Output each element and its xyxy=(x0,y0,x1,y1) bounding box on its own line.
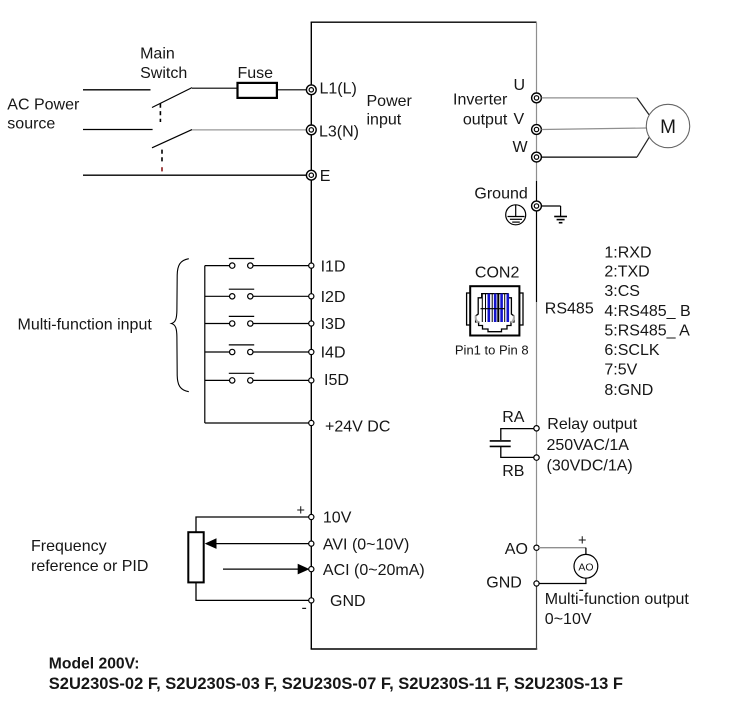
svg-text:Pin1 to Pin 8: Pin1 to Pin 8 xyxy=(455,343,529,358)
svg-text:-: - xyxy=(302,600,307,617)
motor M xyxy=(646,104,689,147)
connector CON2 pins xyxy=(481,294,508,322)
label Model 200V xyxy=(49,656,623,694)
svg-text:ACI (0~20mA): ACI (0~20mA) xyxy=(323,562,425,579)
switch I2D contact xyxy=(205,289,309,299)
wire switch 2 to L3 xyxy=(192,129,307,131)
terminal +24V DC xyxy=(309,418,391,435)
wire W to motor xyxy=(542,137,650,157)
relay contact wiring xyxy=(490,429,534,458)
wire AC earth to E xyxy=(83,174,307,176)
protective earth symbol (circle) xyxy=(506,205,526,225)
svg-text:0~10V: 0~10V xyxy=(545,611,592,628)
svg-text:L3(N): L3(N) xyxy=(319,124,359,141)
svg-text:+24V DC: +24V DC xyxy=(325,418,390,435)
svg-text:source: source xyxy=(7,116,55,133)
wire meter to GND xyxy=(539,578,586,583)
terminal Ground xyxy=(532,201,542,211)
wire AC line 1 left segment xyxy=(83,89,151,91)
svg-text:8:GND: 8:GND xyxy=(604,382,653,399)
multi-function input bus wire xyxy=(204,266,206,423)
terminal AVI xyxy=(309,536,410,553)
svg-text:I1D: I1D xyxy=(321,258,346,275)
inverter main box xyxy=(311,22,538,649)
svg-text:output: output xyxy=(463,111,508,128)
label Main Switch xyxy=(140,46,187,82)
svg-text:2:TXD: 2:TXD xyxy=(604,264,649,281)
svg-text:Relay output: Relay output xyxy=(547,416,637,433)
brace for multi-function input xyxy=(171,259,188,392)
label Relay output ratings xyxy=(547,416,638,475)
svg-text:Fuse: Fuse xyxy=(238,65,274,82)
wire potentiometer bottom to GND xyxy=(196,582,309,600)
label Power input xyxy=(367,93,413,128)
terminal RB xyxy=(534,455,539,460)
svg-text:W: W xyxy=(513,139,529,156)
label Frequency reference or PID xyxy=(31,538,148,575)
ground symbol at chassis xyxy=(542,206,568,223)
terminal U xyxy=(514,77,542,103)
svg-text:Ground: Ground xyxy=(474,186,527,203)
switch I4D contact xyxy=(205,345,309,355)
svg-text:AO: AO xyxy=(505,541,528,558)
svg-text:250VAC/1A: 250VAC/1A xyxy=(547,437,630,454)
wire U to motor xyxy=(542,98,650,116)
wire AC line 2 left segment xyxy=(83,129,153,131)
svg-text:(30VDC/1A): (30VDC/1A) xyxy=(547,458,633,475)
potentiometer body xyxy=(188,532,203,582)
terminal I4D xyxy=(309,345,346,362)
svg-text:AO: AO xyxy=(578,561,593,573)
svg-text:Multi-function input: Multi-function input xyxy=(18,317,153,334)
svg-text:Power: Power xyxy=(367,93,413,110)
meter AO xyxy=(574,554,598,578)
switch I5D contact xyxy=(205,373,309,383)
svg-text:10V: 10V xyxy=(323,510,352,527)
wire V to motor xyxy=(542,128,647,130)
svg-text:Switch: Switch xyxy=(140,65,187,82)
RS485 pin list xyxy=(604,244,690,399)
terminal I3D xyxy=(309,316,346,333)
svg-text:7:5V: 7:5V xyxy=(604,362,637,379)
switch pole 2 (Main Switch) xyxy=(152,130,192,172)
wire potentiometer wiper to AVI (arrow) xyxy=(205,538,309,549)
terminal L1(L) xyxy=(306,81,356,98)
svg-text:3:CS: 3:CS xyxy=(604,283,640,300)
svg-text:6:SCLK: 6:SCLK xyxy=(604,342,659,359)
switch I1D contact xyxy=(205,259,309,269)
svg-text:RS485: RS485 xyxy=(545,300,594,317)
svg-text:RB: RB xyxy=(502,463,524,480)
svg-text:Main: Main xyxy=(140,46,175,63)
svg-text:AVI (0~10V): AVI (0~10V) xyxy=(323,536,409,553)
svg-text:GND: GND xyxy=(486,575,522,592)
wire to ACI (arrow) xyxy=(223,564,310,575)
switch I3D contact xyxy=(205,316,309,326)
terminal GND (left) xyxy=(309,593,366,610)
svg-text:M: M xyxy=(660,117,676,138)
svg-text:V: V xyxy=(514,111,525,128)
terminal GND (right) xyxy=(534,581,539,586)
svg-text:I5D: I5D xyxy=(324,372,349,389)
svg-text:I4D: I4D xyxy=(321,345,346,362)
svg-text:Model 200V:: Model 200V: xyxy=(49,656,140,673)
wire 10V to potentiometer top xyxy=(196,517,309,532)
svg-text:CON2: CON2 xyxy=(475,264,520,281)
svg-text:4:RS485_ B: 4:RS485_ B xyxy=(604,303,690,320)
svg-text:Inverter: Inverter xyxy=(453,91,508,108)
svg-text:1:RXD: 1:RXD xyxy=(604,244,651,261)
svg-text:L1(L): L1(L) xyxy=(320,81,357,98)
svg-text:AC Power: AC Power xyxy=(7,97,80,114)
wire AO to meter xyxy=(539,548,586,555)
svg-text:Multi-function output: Multi-function output xyxy=(545,591,690,608)
svg-text:Frequency: Frequency xyxy=(31,538,107,555)
svg-text:input: input xyxy=(367,111,402,128)
terminal AO xyxy=(534,545,539,550)
terminal I1D xyxy=(309,258,346,275)
svg-text:5:RS485_ A: 5:RS485_ A xyxy=(604,322,690,339)
svg-text:E: E xyxy=(320,168,331,185)
terminal I5D xyxy=(309,372,349,389)
terminal RA xyxy=(534,426,539,431)
wire bus to +24V DC xyxy=(205,422,309,424)
svg-text:I2D: I2D xyxy=(321,289,346,306)
connector CON2 jack xyxy=(467,286,523,335)
terminal V xyxy=(514,111,542,134)
terminal L3(N) xyxy=(306,124,359,141)
terminal W xyxy=(513,139,542,162)
label AC Power source xyxy=(7,97,80,133)
label Multi-function output xyxy=(545,591,690,628)
terminal ACI xyxy=(309,562,425,579)
svg-text:U: U xyxy=(514,77,526,94)
wire fuse to L1 xyxy=(277,89,307,91)
svg-text:I3D: I3D xyxy=(321,316,346,333)
label Inverter output xyxy=(453,91,508,128)
terminal E xyxy=(306,168,330,185)
switch pole 1 (Main Switch) xyxy=(152,88,192,122)
svg-text:RA: RA xyxy=(502,409,525,426)
terminal 10V xyxy=(309,510,352,527)
wire switch 1 to fuse xyxy=(192,87,238,89)
fuse F1 xyxy=(238,83,277,98)
svg-text:GND: GND xyxy=(330,593,366,610)
svg-text:reference or PID: reference or PID xyxy=(31,558,148,575)
terminal I2D xyxy=(309,289,346,306)
svg-text:+: + xyxy=(578,533,586,549)
svg-text:S2U230S-02 F, S2U230S-03 F, S2: S2U230S-02 F, S2U230S-03 F, S2U230S-07 F… xyxy=(49,675,623,693)
